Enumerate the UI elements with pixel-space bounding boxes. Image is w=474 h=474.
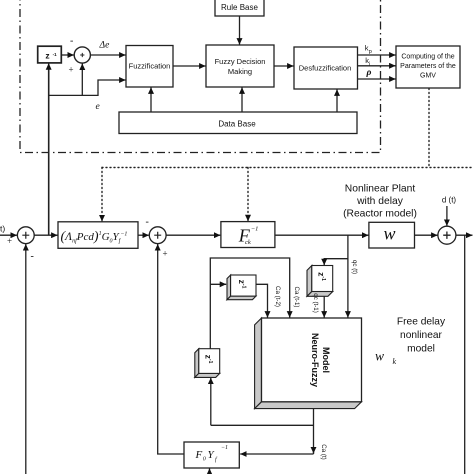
svg-text:(Reactor model): (Reactor model) (343, 208, 417, 219)
svg-text:(ΛnfPcd)1G0Yf−1: (ΛnfPcd)1G0Yf−1 (61, 230, 128, 245)
svg-text:-: - (31, 251, 34, 262)
svg-text:Free delay: Free delay (397, 317, 446, 328)
svg-text:Desfuzzification: Desfuzzification (299, 64, 352, 73)
svg-text:nonlinear: nonlinear (400, 330, 443, 341)
svg-text:f: f (215, 456, 218, 463)
svg-text:Ca (t): Ca (t) (320, 444, 327, 459)
svg-text:-1: -1 (53, 52, 57, 57)
svg-text:w: w (383, 223, 395, 243)
svg-text:−1: −1 (221, 445, 228, 451)
svg-text:k: k (393, 357, 397, 366)
svg-text:model: model (407, 344, 435, 355)
svg-text:Ca (t-2): Ca (t-2) (274, 286, 281, 307)
svg-text:with delay: with delay (356, 196, 404, 207)
svg-text:t): t) (0, 224, 5, 234)
svg-text:Fuzzification: Fuzzification (129, 62, 171, 71)
svg-text:GMV: GMV (420, 73, 436, 80)
svg-text:Data Base: Data Base (218, 120, 256, 129)
svg-text:0: 0 (203, 457, 206, 463)
svg-text:Making: Making (228, 67, 252, 76)
svg-text:Neuro-Fuzzy: Neuro-Fuzzy (310, 333, 320, 387)
svg-text:-: - (146, 217, 149, 228)
svg-text:−1: −1 (251, 226, 259, 233)
svg-text:d (t): d (t) (442, 196, 457, 205)
svg-text:i: i (369, 61, 370, 67)
svg-text:-: - (70, 36, 73, 47)
svg-text:Ca (t-1): Ca (t-1) (293, 287, 300, 308)
svg-text:ck: ck (245, 239, 251, 246)
svg-text:F: F (195, 449, 203, 461)
svg-text:+: + (7, 236, 12, 246)
svg-text:Rule Base: Rule Base (221, 3, 258, 12)
svg-text:ρ: ρ (366, 68, 372, 78)
svg-text:z: z (45, 50, 49, 60)
svg-text:Nonlinear Plant: Nonlinear Plant (345, 184, 416, 195)
svg-text:Computing of the: Computing of the (401, 54, 454, 61)
svg-text:w: w (375, 349, 384, 364)
svg-text:qc (t): qc (t) (351, 260, 358, 274)
svg-text:+: + (163, 249, 168, 259)
svg-text:qc (t-1): qc (t-1) (312, 293, 319, 313)
svg-text:Parameters of the: Parameters of the (400, 63, 456, 70)
svg-text:e: e (96, 102, 100, 112)
svg-text:Δe: Δe (99, 41, 110, 51)
svg-text:+: + (69, 65, 74, 75)
svg-text:Model: Model (321, 347, 331, 373)
svg-text:p: p (369, 49, 372, 55)
svg-text:Fuzzy Decision: Fuzzy Decision (215, 57, 266, 66)
